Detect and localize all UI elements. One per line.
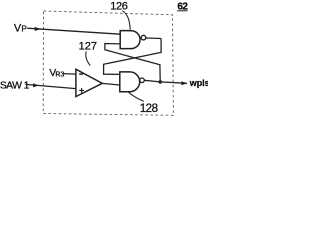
wire VR3 to comparator — [63, 73, 76, 76]
junction node — [158, 80, 162, 84]
label 62 underline — [177, 10, 187, 12]
arrowhead wpls — [181, 81, 187, 85]
svg-text:127: 127 — [79, 41, 97, 53]
wire VP input — [27, 28, 120, 34]
wire U128 output to junction — [144, 80, 160, 82]
op-amp comparator U127 — [76, 69, 102, 96]
leader line for 126 — [122, 11, 130, 30]
arrowhead VP — [35, 27, 41, 31]
svg-text:128: 128 — [140, 103, 158, 115]
wire vertical from U126 output — [104, 39, 162, 75]
arrowhead SAW — [33, 83, 39, 87]
wire comparator output to NAND 128 — [102, 83, 120, 85]
wire U126 output — [146, 37, 161, 40]
svg-text:R3: R3 — [55, 72, 64, 79]
dashed boundary box 62 — [43, 11, 173, 115]
svg-text:126: 126 — [110, 1, 128, 13]
leader line for 128 — [129, 92, 144, 101]
plus sign (non-inverting input) — [79, 89, 84, 91]
svg-text:wpls: wpls — [189, 78, 208, 88]
wire U128 feedback to U126 lower input — [105, 44, 160, 82]
nand gate U126 output bubble — [141, 35, 146, 40]
wire SAW input — [25, 84, 76, 88]
svg-text:SAW 1: SAW 1 — [0, 81, 30, 92]
wire output to wpls — [160, 82, 187, 83]
leader line for 127 — [86, 51, 91, 65]
minus sign (inverting input) — [79, 73, 83, 75]
nand gate U128 body — [120, 72, 140, 92]
svg-text:P: P — [21, 25, 27, 34]
nand gate U126 body — [120, 31, 140, 49]
nand gate U128 output bubble — [140, 78, 145, 83]
